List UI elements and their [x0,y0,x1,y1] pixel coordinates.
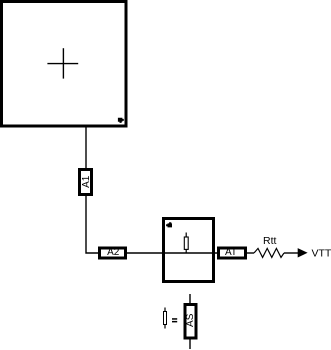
legend resistor symbol [164,308,167,329]
wire [86,195,99,254]
svg-text:A2: A2 [107,247,120,258]
resistor AS [185,305,196,339]
resistor AT [219,247,246,258]
wire [247,252,254,254]
wire [85,126,87,169]
resistor Rtt (zigzag) [254,248,284,257]
internal resistor symbol [184,233,188,254]
svg-text:Rtt: Rtt [263,235,277,247]
wire [127,252,163,254]
wire [284,252,298,254]
svg-text:VTT: VTT [312,248,331,260]
port arrow VTT [298,248,308,257]
block U2 (large symbol body) [2,2,127,127]
block U1 (medium symbol body) [164,219,214,282]
wire [189,294,191,304]
resistor A2 [100,247,126,258]
pin marker (medium block, top-left) [166,222,172,227]
equals sign [172,318,177,320]
svg-text:AT: AT [225,247,237,258]
resistor A1 [80,170,92,195]
crosshair (symbol origin) [47,63,78,65]
svg-text:A1: A1 [81,175,92,188]
svg-text:AS: AS [185,313,196,327]
pin marker (large block, bottom-right) [118,118,124,123]
wire [189,339,191,350]
wire (through block) [163,252,217,254]
